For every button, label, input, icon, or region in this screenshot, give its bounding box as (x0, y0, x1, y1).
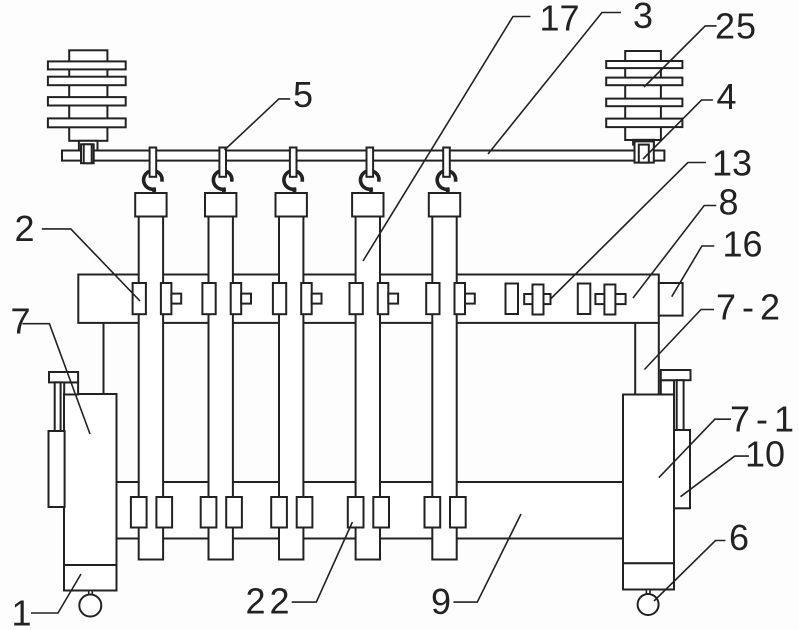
svg-text:8: 8 (719, 182, 739, 223)
bar clamp pair 22 #4 (348, 497, 389, 528)
leader 3 (488, 13, 621, 155)
hanging rod 17 #5 (432, 217, 456, 560)
end block 16 (659, 283, 683, 316)
hanger hook 5 #4 (360, 148, 378, 194)
hanger hook 5 #5 (437, 148, 455, 194)
hanging rod 17 #2 (209, 217, 233, 560)
beam clamp set 2 #2 (202, 283, 251, 314)
bar clamp pair 22 #2 (201, 497, 242, 528)
bottom bar 9 (117, 482, 624, 539)
svg-text:5: 5 (293, 74, 313, 115)
left upright base 1 (64, 565, 117, 591)
leader 4 (643, 100, 713, 159)
svg-text:13: 13 (712, 143, 752, 184)
leader 16 (672, 246, 715, 297)
svg-text:1: 1 (12, 593, 32, 630)
left rail clamp (81, 144, 94, 163)
rod head block #3 (276, 193, 307, 217)
right thin rod (677, 380, 684, 430)
leader 5 (225, 99, 291, 150)
leader 2 (42, 229, 140, 301)
hanger hook 5 #1 (144, 148, 162, 194)
hanging rod 17 #3 (279, 217, 303, 560)
beam clamp set 2 #3 (273, 283, 322, 314)
leader 9 (453, 514, 521, 602)
leader 17 (363, 17, 530, 262)
beam clamp set 2 #4 (350, 283, 399, 314)
svg-text:16: 16 (723, 224, 763, 265)
left wheel stem (89, 591, 93, 595)
leader 10 (681, 456, 749, 497)
insulator 25 (606, 51, 682, 145)
leader 13 (551, 163, 706, 300)
rod head block #5 (429, 193, 460, 217)
rod head block #1 (135, 193, 166, 217)
leader 25 (644, 26, 717, 87)
svg-text:7: 7 (11, 301, 31, 342)
leader 7 (23, 324, 91, 434)
left flange and stem (49, 372, 78, 395)
rod head block #4 (352, 193, 383, 217)
rod head block #2 (205, 193, 236, 217)
svg-text:4: 4 (717, 76, 737, 117)
leader 7-1 (659, 419, 731, 478)
hanging rod 17 #4 (356, 217, 380, 560)
right upright box 7-1 (623, 395, 674, 564)
beam 8 (fixed beam) (78, 275, 659, 323)
spare clamp assembly 13 #1 (506, 284, 551, 315)
hanger hook 5 #2 (213, 148, 231, 194)
beam clamp set 2 #5 (426, 283, 475, 314)
svg-text:10: 10 (745, 434, 785, 475)
svg-text:22: 22 (246, 581, 294, 622)
leader 6 (654, 541, 726, 602)
svg-text:9: 9 (431, 581, 451, 622)
right side box 10 (674, 430, 690, 508)
right column neck 7-2 (635, 323, 659, 395)
left thin rod (55, 382, 61, 431)
svg-text:25: 25 (715, 6, 757, 47)
leader 8 (633, 206, 716, 299)
svg-text:2: 2 (15, 208, 35, 249)
svg-text:7-2: 7-2 (716, 287, 786, 328)
right wheel 6 (638, 594, 659, 615)
svg-text:3: 3 (633, 0, 653, 36)
rail 3 (hanger rail) (62, 151, 664, 161)
hanger hook 5 #3 (284, 148, 302, 194)
left wheel 6 (79, 595, 101, 617)
left column neck (103, 323, 105, 394)
left upright box 7 (64, 394, 117, 565)
leader 7-2 (644, 310, 714, 370)
spare clamp assembly 13 #2 (578, 284, 626, 315)
right flange and stem (661, 370, 691, 395)
left insulator stack (48, 50, 126, 150)
bar clamp pair 22 #3 (271, 497, 312, 528)
leader 22 (292, 522, 353, 602)
beam clamp set 2 #1 (133, 283, 182, 314)
bar clamp pair 22 #1 (131, 497, 172, 528)
svg-text:17: 17 (540, 0, 580, 39)
svg-text:6: 6 (729, 517, 749, 558)
leader 1 (31, 574, 81, 613)
hanging rod 17 #1 (139, 217, 163, 560)
left side box (49, 431, 65, 507)
rail clamp 4 (635, 141, 654, 162)
bar clamp pair 22 #5 (425, 497, 466, 528)
right upright base (623, 563, 674, 589)
right wheel stem (646, 590, 650, 594)
